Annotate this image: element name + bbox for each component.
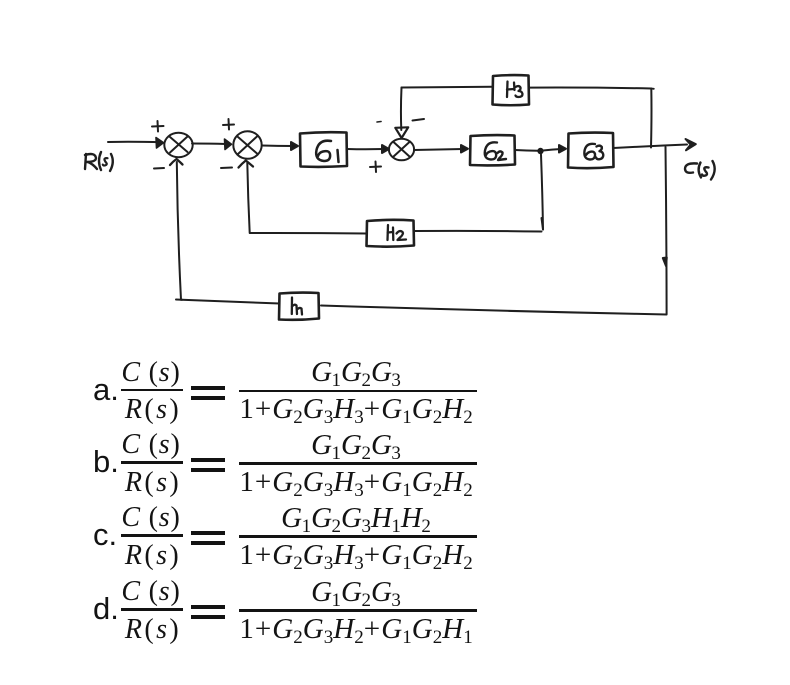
wire G2 to node [515, 149, 538, 152]
wire J2 to G1 [262, 145, 293, 148]
H2 left rise wire into J2 [247, 163, 249, 233]
H1 corner overshoot tick [176, 299, 182, 301]
answer option a [93, 376, 119, 404]
H3 feedback: tap wire from output line up [650, 89, 652, 148]
label G2 [485, 142, 506, 160]
plus sign at J1 [152, 121, 164, 132]
node C(s) output label [685, 161, 715, 180]
arrowhead into J3 [382, 145, 389, 153]
arrowhead into G3 [559, 145, 566, 153]
block H1 box [279, 293, 319, 320]
label H1 [292, 298, 302, 315]
H3 left drop wire into J3 [400, 88, 403, 131]
H2 bottom wire left segment [250, 232, 367, 235]
H3 top wire right segment [529, 87, 651, 90]
H2 bottom wire right segment [415, 230, 542, 233]
H3 corner overshoot tick [651, 88, 654, 90]
arrowhead into J2 [225, 139, 232, 150]
node R(s) input label [85, 152, 113, 171]
label H3 [507, 82, 523, 98]
arrowhead into G2 [461, 145, 468, 153]
minus sign below J1 [154, 167, 164, 170]
arrowhead into G1 [291, 142, 298, 150]
H2 corner hook [542, 218, 544, 230]
arrowhead up into J1 bottom [170, 159, 183, 165]
H1 bottom wire left segment [182, 300, 280, 304]
label G3 [584, 144, 603, 160]
output arrowhead [686, 139, 696, 150]
wire node to G3 [543, 149, 561, 151]
wire J3 to G2 [414, 149, 463, 150]
arrowhead into J1 [156, 138, 164, 149]
answer option d [93, 595, 119, 623]
stray mark [377, 121, 381, 124]
label G1 [316, 141, 338, 162]
wire J1 to J2 [192, 143, 226, 146]
arrowhead down on H1 drop wire [663, 258, 667, 267]
H1 feedback: drop wire from output line down [666, 147, 667, 314]
summing junction J1 [164, 133, 192, 157]
H1 left rise wire into J1 [177, 162, 181, 300]
wire G3 to output [614, 145, 688, 149]
H3 top wire left segment [402, 86, 493, 89]
block G2 box [470, 135, 515, 165]
node pickoff dot after G2 [537, 148, 543, 154]
answer option c [93, 521, 117, 549]
answer option b [93, 448, 119, 476]
label H2 [388, 225, 407, 240]
arrowhead up into J2 bottom [239, 161, 254, 168]
minus sign above-right of J3 [413, 119, 425, 121]
wire input to J1 [108, 141, 162, 143]
arrowhead down into J3 top [395, 127, 408, 138]
plus sign left-below J3 [370, 162, 381, 173]
block diagram SVG [0, 0, 790, 360]
H2 feedback: drop wire from node down [541, 155, 543, 230]
wire G1 to J3 [347, 148, 384, 150]
H1 bottom wire right segment [321, 306, 667, 315]
summing junction J2 [233, 131, 261, 159]
plus sign at J2 [223, 119, 234, 130]
minus sign below J2 [221, 167, 232, 170]
block G1 box [300, 132, 347, 167]
summing junction J3 [389, 139, 414, 161]
block H3 box [493, 75, 530, 105]
block G3 box [568, 133, 614, 169]
block H2 box [367, 220, 415, 247]
